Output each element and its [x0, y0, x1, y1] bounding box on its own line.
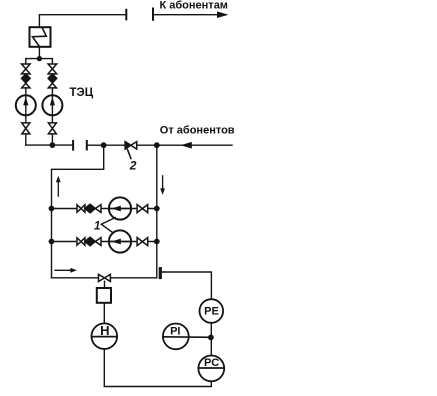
svg-text:H: H — [100, 323, 109, 338]
svg-text:PE: PE — [204, 306, 219, 318]
svg-text:PI: PI — [170, 326, 180, 338]
svg-text:От абонентов: От абонентов — [160, 125, 235, 137]
svg-text:2: 2 — [129, 159, 137, 173]
svg-text:К абонентам: К абонентам — [160, 0, 228, 12]
svg-text:1: 1 — [94, 220, 100, 232]
svg-text:PC: PC — [204, 357, 219, 369]
svg-text:ТЭЦ: ТЭЦ — [70, 87, 94, 99]
